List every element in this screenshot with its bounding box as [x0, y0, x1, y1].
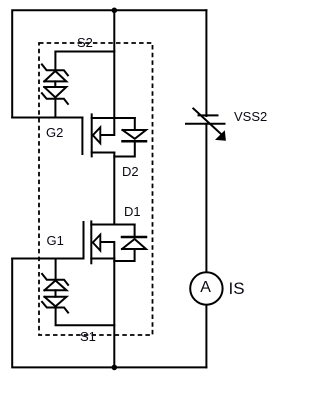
wire S2 rail: [113, 10, 115, 118]
wire right branch upper: [205, 10, 207, 116]
channel bar Q1: [90, 221, 92, 263]
svg-text:D2: D2: [122, 164, 139, 179]
wire ammeter to bottom: [205, 305, 207, 368]
junction dot top: [112, 8, 118, 14]
wire G1 lead: [12, 258, 83, 260]
wire D2-D1 rail: [113, 153, 115, 225]
gate bar Q2: [81, 118, 83, 155]
svg-text:A: A: [200, 279, 211, 296]
svg-text:S1: S1: [80, 329, 96, 344]
wire G2 lead: [12, 117, 82, 119]
wire top rail: [12, 10, 206, 117]
source stub bottom Q2: [92, 152, 115, 154]
source stub bottom Q1: [91, 258, 114, 260]
svg-text:IS: IS: [229, 279, 245, 298]
wire bottom rail: [12, 259, 206, 368]
drain stub top Q1: [91, 224, 134, 226]
wire zener to S1: [56, 309, 115, 326]
wire S2 to zener: [55, 52, 114, 70]
channel bar Q2: [91, 114, 93, 156]
arrow Q1 body: [93, 235, 101, 251]
svg-text:G2: G2: [46, 125, 63, 140]
diode D2 body diode: [114, 118, 146, 157]
source VSS2 (adjustable): [186, 109, 225, 134]
dashed chip outline: [39, 43, 153, 335]
body stub Q1: [100, 242, 114, 259]
svg-text:S2: S2: [77, 35, 93, 50]
wire VSS2 to ammeter: [205, 124, 207, 273]
junction dot bottom: [112, 365, 118, 371]
wire zener to G2: [54, 99, 56, 118]
arrow Q2 body: [93, 127, 101, 143]
ammeter IS: [190, 272, 222, 304]
svg-text:D1: D1: [124, 204, 141, 219]
mosfet Q1 lower: [84, 221, 135, 263]
diode D1 body diode: [114, 225, 146, 262]
body stub Q2: [100, 118, 114, 135]
zener pair Z2 (gate G2 protection): [42, 64, 68, 104]
zener pair Z1 (gate G1 protection): [42, 274, 68, 313]
wire G1 to zener: [55, 259, 57, 280]
svg-text:VSS2: VSS2: [234, 109, 267, 124]
drain stub top Q2: [92, 117, 135, 119]
arrowhead VSS2: [215, 130, 226, 140]
wire S1 rail: [113, 259, 115, 368]
mosfet Q2 upper: [82, 114, 134, 156]
svg-text:G1: G1: [47, 233, 64, 248]
gate bar Q1: [83, 222, 85, 259]
